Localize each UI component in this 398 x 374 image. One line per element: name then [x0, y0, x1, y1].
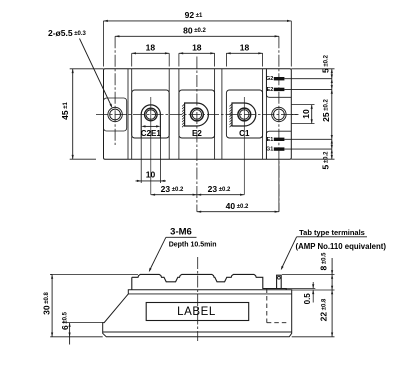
svg-text:Tab type terminals: Tab type terminals	[299, 228, 365, 237]
svg-text:0.5: 0.5	[303, 293, 312, 305]
svg-text:E2: E2	[267, 87, 274, 93]
svg-text:10: 10	[301, 109, 311, 119]
svg-text:Depth 10.5min: Depth 10.5min	[169, 242, 217, 249]
svg-text:C2E1: C2E1	[141, 129, 162, 138]
svg-text:LABEL: LABEL	[177, 306, 216, 318]
svg-text:18: 18	[240, 42, 250, 52]
svg-text:E2: E2	[192, 129, 202, 138]
svg-text:18: 18	[192, 42, 202, 52]
svg-text:3-M6: 3-M6	[170, 227, 192, 238]
svg-text:G2: G2	[266, 76, 273, 82]
svg-text:E1: E1	[267, 137, 274, 143]
svg-text:(AMP No.110 equivalent): (AMP No.110 equivalent)	[296, 242, 387, 251]
svg-text:18: 18	[146, 42, 156, 52]
svg-text:C1: C1	[239, 129, 250, 138]
svg-text:10: 10	[146, 170, 156, 180]
svg-text:G1: G1	[266, 147, 273, 153]
